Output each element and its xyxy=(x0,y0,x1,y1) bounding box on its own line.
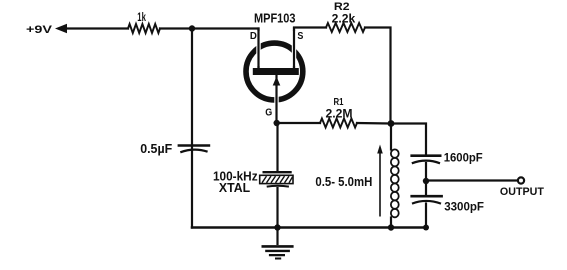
svg-text:1k: 1k xyxy=(137,10,146,24)
svg-text:0.5- 5.0mH: 0.5- 5.0mH xyxy=(315,174,372,189)
svg-text:XTAL: XTAL xyxy=(219,180,250,195)
svg-text:OUTPUT: OUTPUT xyxy=(500,186,544,198)
svg-text:D: D xyxy=(250,31,257,42)
svg-text:S: S xyxy=(297,31,303,42)
svg-text:2.2M: 2.2M xyxy=(326,107,353,120)
svg-text:3300pF: 3300pF xyxy=(444,199,484,213)
svg-text:+9V: +9V xyxy=(26,24,53,36)
svg-text:G: G xyxy=(265,106,272,118)
svg-text:1600pF: 1600pF xyxy=(444,152,483,165)
svg-text:R1: R1 xyxy=(334,96,344,108)
svg-text:MPF103: MPF103 xyxy=(254,10,296,25)
svg-text:0.5µF: 0.5µF xyxy=(140,141,172,156)
svg-text:2.2k: 2.2k xyxy=(332,11,356,25)
